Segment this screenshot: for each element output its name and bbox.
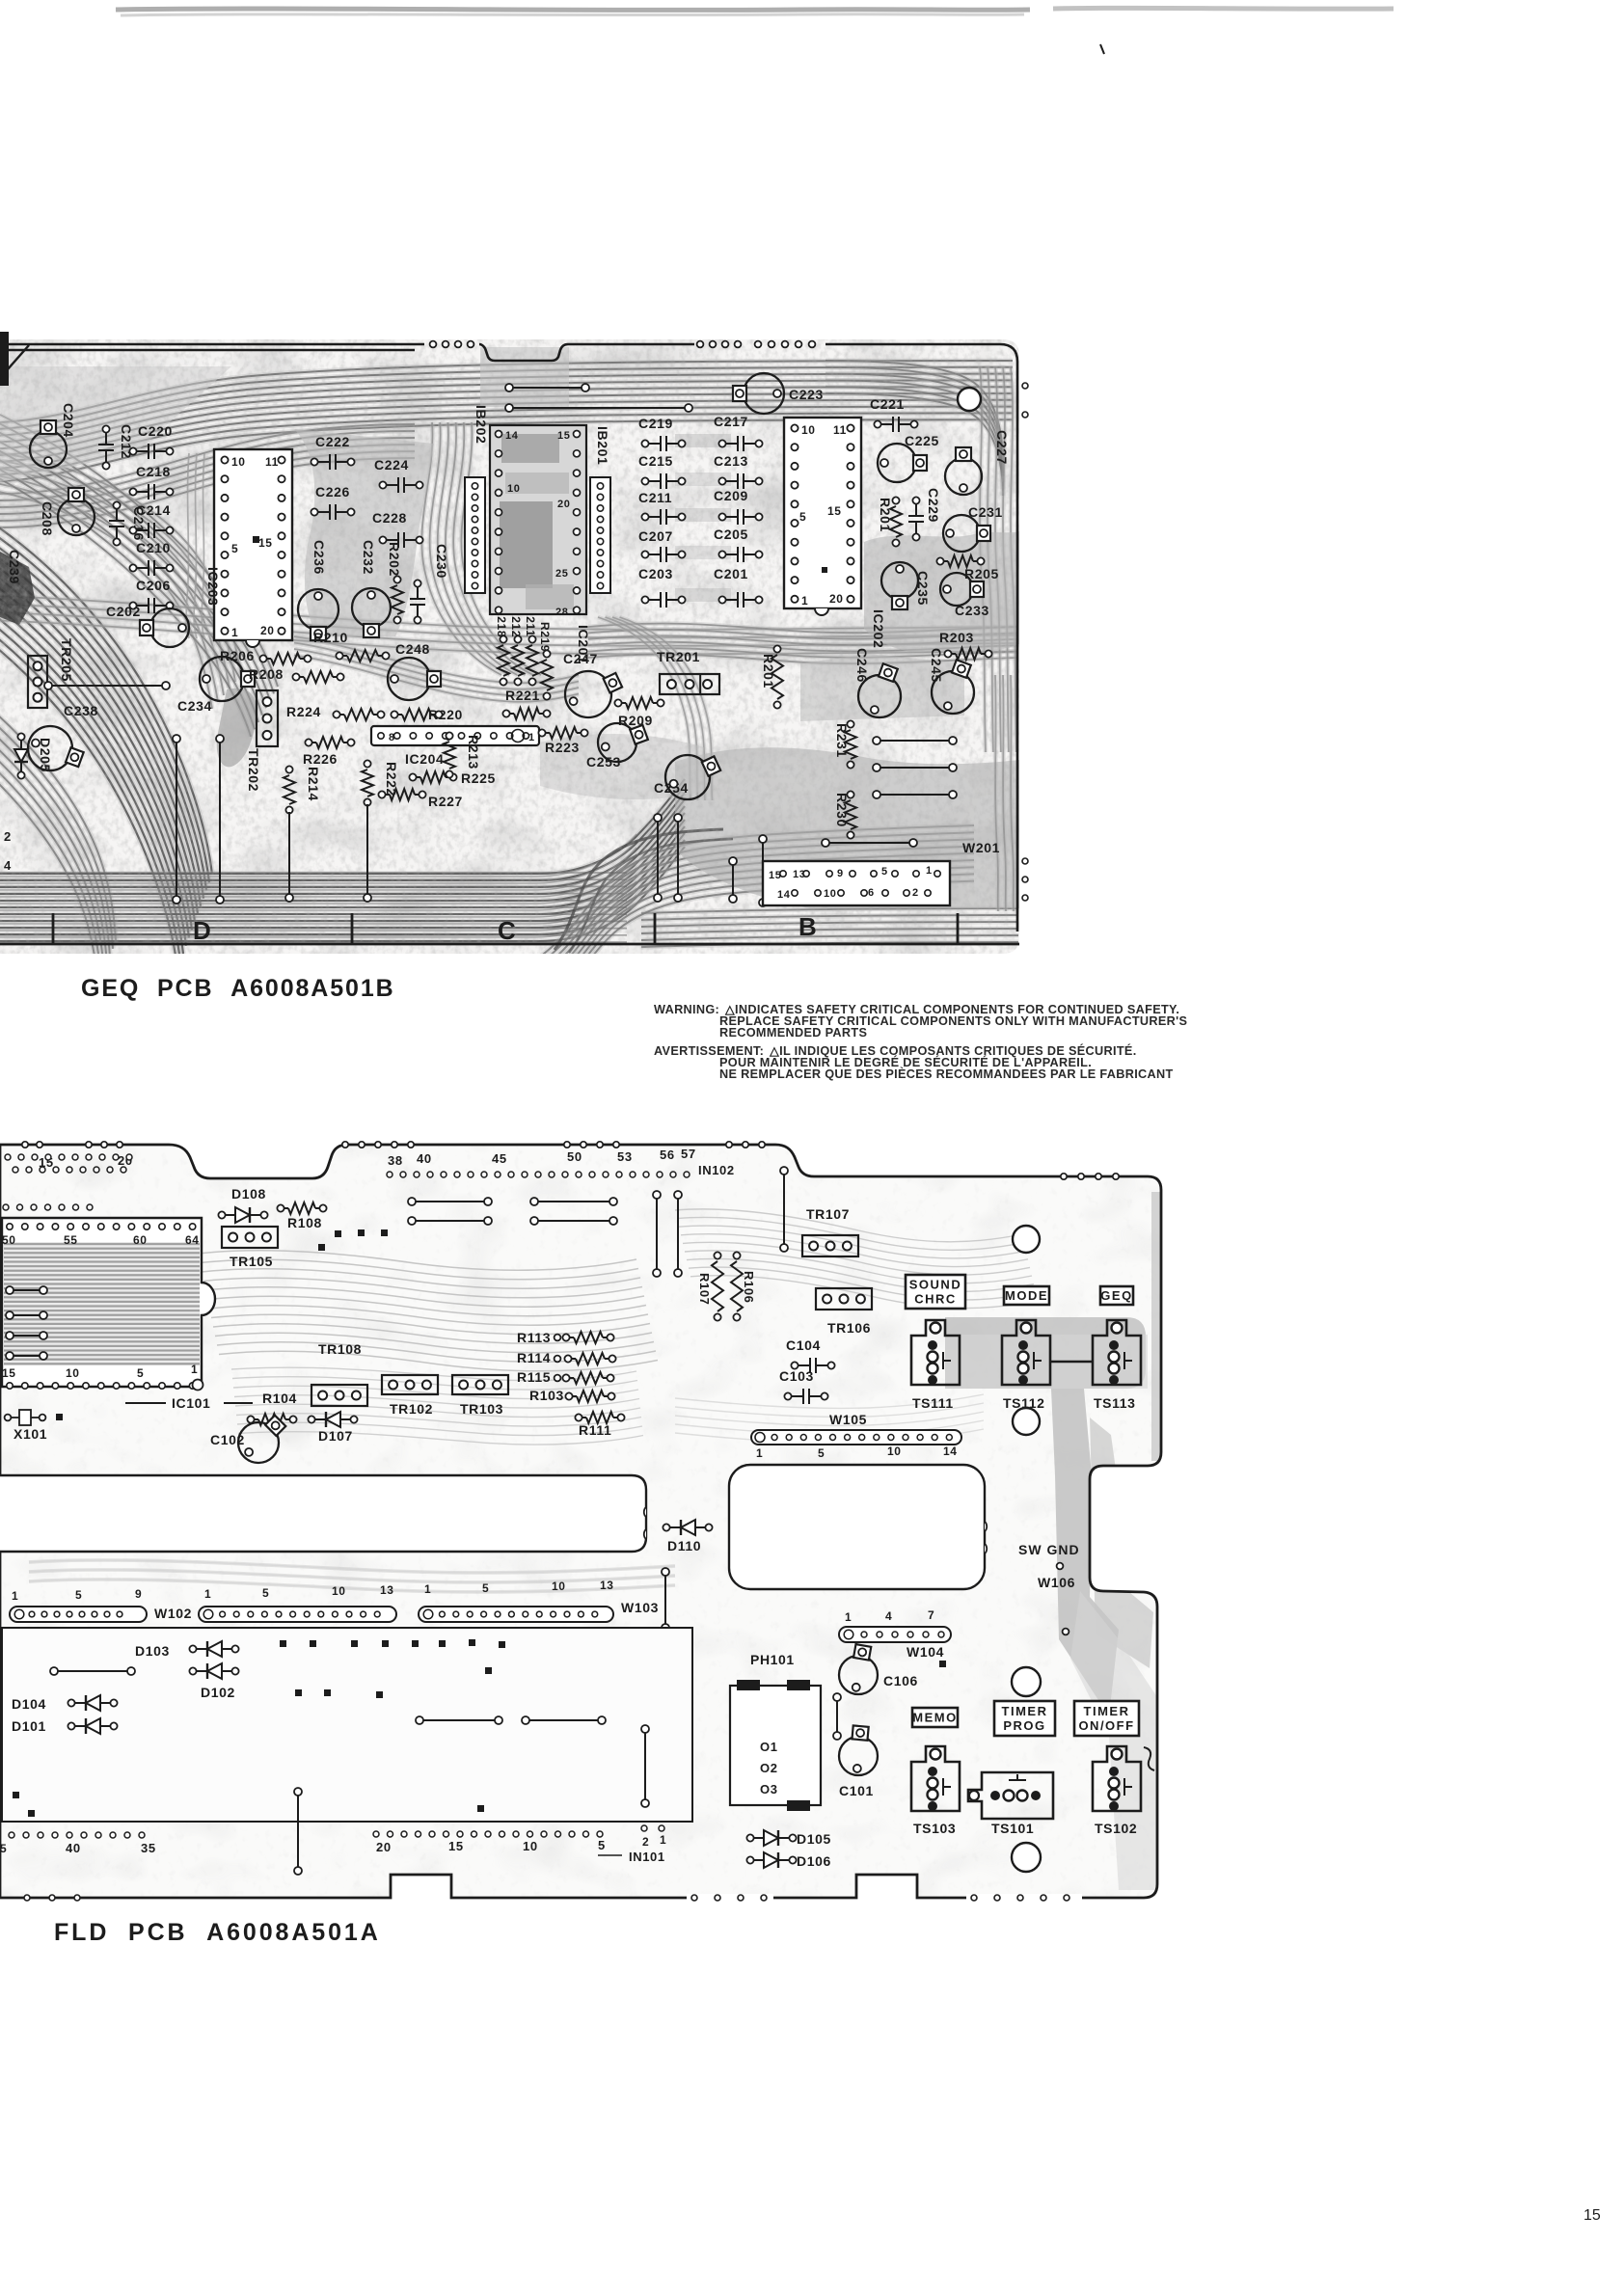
wire jumpers top middle 2 <box>408 1217 416 1225</box>
svg-text:C223: C223 <box>789 387 824 402</box>
resistor R205 <box>936 557 943 564</box>
trace bundle upper-left diagonal <box>0 453 241 675</box>
photo sensor PH101 <box>730 1686 821 1805</box>
capacitor C232 <box>352 588 391 627</box>
trace bundle top second <box>0 424 415 494</box>
connector strip 2 <box>199 1607 396 1622</box>
resistor R213 <box>446 732 452 739</box>
svg-text:RECOMMENDED PARTS: RECOMMENDED PARTS <box>719 1026 867 1040</box>
capacitor C234 <box>200 657 244 701</box>
keyboard jumper wires <box>416 1716 423 1724</box>
svg-text:W103: W103 <box>621 1600 659 1615</box>
svg-text:1: 1 <box>231 626 238 639</box>
svg-text:53: 53 <box>617 1149 633 1164</box>
connector strip 3 <box>419 1607 613 1622</box>
svg-text:10: 10 <box>507 483 520 495</box>
svg-text:C209: C209 <box>714 488 748 503</box>
transistor TR103 <box>452 1375 508 1394</box>
svg-text:5: 5 <box>231 542 238 555</box>
svg-text:R219: R219 <box>538 622 552 652</box>
GEQ PCB board region <box>0 339 1019 1013</box>
tact switch TS112 <box>1002 1320 1050 1385</box>
transistor TR106 <box>816 1288 872 1310</box>
svg-text:20: 20 <box>260 624 275 637</box>
svg-text:C203: C203 <box>638 566 673 581</box>
svg-text:GEQ: GEQ <box>1100 1288 1132 1303</box>
svg-text:C230: C230 <box>434 544 449 579</box>
svg-text:R224: R224 <box>286 704 321 719</box>
label box SOUND CHRC <box>906 1275 965 1309</box>
svg-text:C232: C232 <box>361 540 376 575</box>
resistor R231 <box>847 720 853 727</box>
svg-text:GEQ PCB A6008A501B: GEQ PCB A6008A501B <box>81 975 395 1002</box>
svg-text:O3: O3 <box>760 1782 778 1796</box>
keyboard vertical jumper bottom <box>294 1788 302 1796</box>
svg-text:60: 60 <box>133 1233 148 1247</box>
wire verticals near IN102 <box>653 1191 661 1199</box>
label box MEMO <box>912 1708 958 1727</box>
svg-text:R209: R209 <box>618 713 653 728</box>
capacitor C231 <box>943 515 980 552</box>
svg-text:C218: C218 <box>136 464 171 479</box>
svg-text:5: 5 <box>262 1586 269 1600</box>
svg-text:20: 20 <box>376 1840 392 1854</box>
svg-text:45: 45 <box>492 1151 507 1166</box>
svg-text:10: 10 <box>66 1366 80 1380</box>
svg-text:5: 5 <box>881 866 888 878</box>
dark meander near C254 <box>555 829 723 950</box>
svg-text:O1: O1 <box>760 1740 778 1754</box>
svg-text:R203: R203 <box>939 630 974 645</box>
SW GND pad <box>1057 1563 1064 1570</box>
svg-text:1: 1 <box>660 1833 666 1847</box>
wire below TR201 <box>729 857 737 865</box>
diode D105 <box>746 1834 753 1841</box>
svg-text:R115: R115 <box>517 1369 551 1385</box>
connector W102 <box>10 1607 147 1622</box>
top edge pads left <box>22 1142 28 1148</box>
grey smudge right edge outer <box>1151 1192 1161 1461</box>
svg-text:40: 40 <box>417 1151 432 1166</box>
FLD contour squiggles upper middle <box>198 1251 636 1271</box>
right edge pads outside board <box>1022 383 1028 389</box>
trace bundle right edge vertical <box>980 366 986 752</box>
svg-text:PROG: PROG <box>1003 1718 1045 1733</box>
svg-text:TR108: TR108 <box>318 1341 362 1357</box>
svg-text:1: 1 <box>845 1610 852 1624</box>
svg-text:6: 6 <box>868 887 875 899</box>
display window left <box>0 1475 646 1552</box>
trace bundle top right corner turn <box>826 361 1003 463</box>
svg-text:R213: R213 <box>466 735 481 770</box>
svg-text:W102: W102 <box>154 1606 192 1621</box>
svg-text:D103: D103 <box>135 1643 170 1659</box>
svg-text:TS113: TS113 <box>1094 1395 1135 1411</box>
diode D102 <box>189 1667 196 1674</box>
svg-text:2: 2 <box>4 829 12 844</box>
svg-text:IN102: IN102 <box>698 1163 735 1177</box>
IC101 interior stripes <box>4 1242 200 1365</box>
svg-text:2: 2 <box>642 1835 649 1849</box>
svg-text:15: 15 <box>448 1839 464 1853</box>
svg-text:C222: C222 <box>315 434 350 449</box>
resistor R210 <box>336 652 342 659</box>
trace bundle top horizontal <box>0 361 1013 422</box>
grey patch center-left of IC203 <box>294 429 434 636</box>
svg-text:D108: D108 <box>231 1186 266 1202</box>
svg-text:R104: R104 <box>262 1391 297 1406</box>
svg-text:R106: R106 <box>742 1271 756 1303</box>
keyboard matrix rectangle <box>2 1628 692 1822</box>
grey patch top notch <box>480 347 569 407</box>
left edge pads column <box>6 1286 14 1294</box>
svg-text:13: 13 <box>793 869 805 880</box>
tact switch TS111 <box>911 1320 960 1385</box>
IC202 <box>784 418 861 608</box>
svg-text:R107: R107 <box>697 1273 712 1305</box>
svg-text:R208: R208 <box>249 666 284 682</box>
FLD scan noise texture <box>0 1143 1163 1900</box>
diode D110 <box>663 1524 669 1530</box>
capacitor C223 <box>744 373 784 414</box>
wire TS112 to TS113 <box>1051 1361 1092 1364</box>
svg-text:55: 55 <box>64 1233 78 1247</box>
svg-text:IB201: IB201 <box>595 426 610 465</box>
svg-text:C227: C227 <box>994 430 1010 465</box>
svg-text:D106: D106 <box>797 1853 831 1869</box>
svg-text:R114: R114 <box>517 1350 551 1365</box>
svg-text:TS102: TS102 <box>1095 1821 1137 1836</box>
trace bundle bottom far <box>641 908 1018 913</box>
trace bundle bottom right contour <box>540 825 974 957</box>
GEQ board outline <box>0 344 1017 932</box>
svg-text:11: 11 <box>833 423 847 437</box>
wire jumper below TR201 <box>759 835 767 843</box>
top edge pads right <box>1061 1174 1067 1179</box>
svg-text:W201: W201 <box>962 840 1000 855</box>
svg-text:R225: R225 <box>461 770 496 786</box>
apostrophe scan mark <box>1100 44 1104 54</box>
connector W201 <box>763 861 950 905</box>
diode D107 <box>308 1416 314 1422</box>
svg-text:C214: C214 <box>136 502 171 518</box>
svg-text:TR107: TR107 <box>806 1206 850 1222</box>
svg-text:R103: R103 <box>529 1388 564 1403</box>
svg-text:R230: R230 <box>834 793 850 827</box>
svg-text:5: 5 <box>0 1842 7 1855</box>
svg-text:SOUND: SOUND <box>909 1278 961 1292</box>
svg-text:C225: C225 <box>905 433 939 448</box>
svg-text:8: 8 <box>389 732 395 743</box>
svg-text:TIMER: TIMER <box>1002 1704 1048 1718</box>
svg-text:20: 20 <box>557 499 570 510</box>
svg-text:X101: X101 <box>14 1426 47 1442</box>
svg-text:NE REMPLACER QUE DES PIÈCES RE: NE REMPLACER QUE DES PIÈCES RECOMMANDEES… <box>719 1067 1174 1081</box>
transistor TR201 <box>660 674 719 694</box>
transistor TR107 <box>802 1235 858 1256</box>
connector W105 <box>751 1430 961 1445</box>
label box MODE <box>1004 1286 1049 1305</box>
svg-text:TR106: TR106 <box>827 1320 871 1336</box>
svg-text:C101: C101 <box>839 1783 874 1798</box>
resistor R111 <box>575 1414 582 1420</box>
mounting hole below TS112 <box>1013 1408 1040 1435</box>
svg-text:ON/OFF: ON/OFF <box>1078 1718 1134 1733</box>
wire jumpers top middle 1 <box>408 1198 416 1205</box>
IC101 big IC <box>2 1218 215 1387</box>
svg-text:25: 25 <box>555 568 568 580</box>
svg-text:C231: C231 <box>968 504 1003 520</box>
wire left of D102 <box>50 1667 58 1675</box>
mounting hole top right <box>958 388 981 411</box>
svg-text:W105: W105 <box>829 1412 867 1427</box>
svg-text:R223: R223 <box>545 740 580 755</box>
svg-text:C224: C224 <box>374 457 409 473</box>
warning text english <box>654 1003 1187 1040</box>
capacitor C227 <box>945 458 982 495</box>
capacitor C245 <box>932 671 974 714</box>
resistor R227 <box>378 791 385 797</box>
svg-text:C103: C103 <box>779 1368 814 1384</box>
svg-text:C226: C226 <box>315 484 350 500</box>
svg-text:TS103: TS103 <box>913 1821 956 1836</box>
svg-text:IC201: IC201 <box>576 625 591 663</box>
connector IB201 <box>590 477 610 593</box>
trace bundle left fan inner <box>0 714 116 940</box>
svg-text:R108: R108 <box>287 1215 322 1230</box>
svg-text:MEMO: MEMO <box>912 1711 957 1725</box>
resistor R202 <box>393 576 400 582</box>
capacitor C253 <box>598 723 636 762</box>
transistor TR102 <box>382 1375 438 1394</box>
svg-text:MODE: MODE <box>1005 1288 1048 1303</box>
trace bundle upper-left extra diagonal <box>0 415 278 687</box>
svg-text:TS101: TS101 <box>991 1821 1034 1836</box>
svg-text:C202: C202 <box>106 604 141 619</box>
svg-text:5: 5 <box>137 1366 144 1380</box>
svg-text:CHRC: CHRC <box>914 1292 957 1307</box>
svg-text:15: 15 <box>2 1366 16 1380</box>
svg-text:9: 9 <box>135 1587 142 1601</box>
svg-text:C229: C229 <box>926 488 941 523</box>
svg-text:38: 38 <box>388 1153 403 1168</box>
svg-text:C239: C239 <box>7 550 22 584</box>
svg-text:14: 14 <box>777 889 791 901</box>
tact switch TS101 <box>968 1772 1053 1819</box>
svg-text:5: 5 <box>482 1581 489 1595</box>
trace bundle right of W201 <box>995 675 998 911</box>
svg-text:TR105: TR105 <box>230 1254 273 1269</box>
capacitor C233 <box>940 573 973 606</box>
wire between C106 C101 <box>833 1693 841 1701</box>
trace bundle center vertical snake <box>421 422 501 675</box>
svg-text:R202: R202 <box>387 542 402 577</box>
scan noise texture <box>0 339 1019 954</box>
svg-text:IC101: IC101 <box>172 1395 210 1411</box>
left edge black mark <box>0 332 9 386</box>
svg-text:C219: C219 <box>638 416 673 431</box>
trace bundle center <box>294 636 579 683</box>
tact switch TS103 <box>911 1746 960 1811</box>
svg-text:D104: D104 <box>12 1696 46 1712</box>
resistor R209 <box>614 699 621 706</box>
grey column below TS112 <box>1051 1389 1119 1716</box>
resistor R230 <box>847 791 853 797</box>
svg-text:C207: C207 <box>638 528 673 544</box>
trace bundle left fan <box>0 526 212 875</box>
svg-text:5: 5 <box>75 1588 82 1602</box>
capacitor C101 <box>839 1737 878 1775</box>
IC101 top pin row <box>7 1224 13 1229</box>
capacitor C212 <box>102 425 109 432</box>
svg-text:W104: W104 <box>907 1644 944 1660</box>
smudge rows between caps <box>675 434 731 447</box>
svg-text:1: 1 <box>528 732 535 743</box>
svg-text:IC202: IC202 <box>871 609 886 648</box>
svg-text:PH101: PH101 <box>750 1652 795 1667</box>
grey streak along right edge step <box>1090 1418 1153 1668</box>
svg-text:R113: R113 <box>517 1330 551 1345</box>
grey blob right of C234 <box>217 689 257 768</box>
svg-text:15: 15 <box>258 536 273 550</box>
resistor R108 <box>277 1204 284 1211</box>
capacitor C235 <box>881 562 918 599</box>
resistor cluster R218 R212 R211 R219 <box>500 635 506 642</box>
svg-text:R226: R226 <box>303 751 338 767</box>
pads row upper left <box>3 1204 9 1210</box>
svg-text:C236: C236 <box>311 540 327 575</box>
transistor TR105 <box>222 1227 278 1248</box>
IC101 bottom pin row <box>7 1383 13 1389</box>
svg-text:15: 15 <box>1583 2207 1601 2224</box>
svg-text:IC203: IC203 <box>205 567 221 606</box>
tact switch TS113 <box>1093 1320 1141 1385</box>
top left corner diagonal edge <box>0 345 29 378</box>
squiggle right of TS102 <box>1144 1747 1154 1770</box>
left edge dark streaks <box>0 872 627 874</box>
diode D106 <box>746 1856 753 1863</box>
trace bundle bottom bus second layer <box>0 834 636 877</box>
svg-text:10: 10 <box>887 1445 902 1458</box>
grey band behind tact switches <box>945 1317 1146 1389</box>
mounting hole above TS101 <box>1012 1667 1041 1696</box>
wire pair below C253 <box>654 814 662 822</box>
svg-text:SW GND: SW GND <box>1018 1542 1080 1557</box>
svg-text:1: 1 <box>424 1582 431 1596</box>
display window main <box>729 1465 985 1589</box>
diode D205 <box>17 733 24 740</box>
svg-text:20: 20 <box>829 592 844 606</box>
svg-text:C238: C238 <box>64 703 98 718</box>
IC203 <box>214 449 292 640</box>
svg-text:R201: R201 <box>878 498 893 532</box>
svg-text:56: 56 <box>660 1148 675 1162</box>
connector W104 <box>839 1627 951 1642</box>
FLD blotch clouds <box>0 1143 1163 1900</box>
svg-text:R206: R206 <box>220 648 255 663</box>
trace bundle mid band full width <box>0 596 1018 630</box>
svg-text:C208: C208 <box>40 501 55 536</box>
svg-text:1: 1 <box>926 865 933 877</box>
scan smudge top edge <box>116 9 1030 10</box>
svg-text:7: 7 <box>928 1608 934 1622</box>
svg-text:10: 10 <box>824 888 836 900</box>
keyboard matrix black squares <box>280 1640 286 1647</box>
svg-text:W106: W106 <box>1038 1575 1075 1590</box>
svg-text:2: 2 <box>912 887 919 899</box>
trace bundle left of IC203 vertical <box>186 453 189 638</box>
capacitor C202 <box>150 608 189 647</box>
top edge pads <box>430 341 437 348</box>
FLD faint squiggles below switch band <box>675 1394 984 1408</box>
mounting hole below TS101 <box>1012 1843 1041 1872</box>
svg-text:C211: C211 <box>638 490 672 505</box>
grey patch bottom middle <box>675 747 1019 908</box>
svg-text:10: 10 <box>801 423 816 437</box>
svg-text:FLD PCB A6008A501A: FLD PCB A6008A501A <box>54 1919 381 1946</box>
svg-text:IN101: IN101 <box>629 1850 665 1864</box>
svg-text:IC204: IC204 <box>405 751 444 767</box>
svg-text:C106: C106 <box>883 1673 918 1688</box>
dark blob left edge <box>0 552 35 625</box>
svg-text:D105: D105 <box>797 1831 831 1847</box>
svg-text:TIMER: TIMER <box>1084 1704 1130 1718</box>
svg-text:C228: C228 <box>372 510 407 526</box>
svg-text:TR202: TR202 <box>246 748 261 792</box>
svg-text:13: 13 <box>380 1583 394 1597</box>
svg-text:B: B <box>798 912 817 941</box>
svg-text:D102: D102 <box>201 1685 235 1700</box>
svg-text:50: 50 <box>2 1233 16 1247</box>
trace bundle bottom bus <box>0 779 685 874</box>
capacitor C246 <box>858 675 901 717</box>
svg-text:TR205: TR205 <box>59 638 74 682</box>
trace bundle mid right <box>588 624 1018 634</box>
svg-text:D110: D110 <box>667 1538 701 1553</box>
FLD board outline <box>0 1145 1161 1898</box>
ruler line with section ticks <box>0 913 1019 944</box>
wire jumper top center 2 <box>505 404 513 412</box>
mounting hole above TS112 <box>1013 1226 1040 1253</box>
IC204 strip <box>371 726 539 745</box>
svg-text:TR201: TR201 <box>657 649 700 664</box>
svg-text:1: 1 <box>191 1363 198 1376</box>
svg-text:5: 5 <box>818 1446 825 1460</box>
svg-text:57: 57 <box>681 1147 696 1161</box>
capacitor C248 <box>388 658 430 700</box>
svg-text:C206: C206 <box>136 578 171 593</box>
svg-text:1: 1 <box>801 594 808 608</box>
svg-text:C210: C210 <box>136 540 171 555</box>
trace bundle below IC202 <box>598 617 690 800</box>
svg-text:TR102: TR102 <box>390 1401 433 1417</box>
warning text french <box>654 1043 1174 1081</box>
grey patch right of IC202 <box>864 531 1019 652</box>
blotch clouds <box>0 339 1019 954</box>
resistor R106 <box>733 1252 740 1258</box>
svg-text:C220: C220 <box>138 423 173 439</box>
wire right of D110 <box>662 1568 669 1576</box>
svg-text:R210: R210 <box>313 630 348 645</box>
label box TIMER ON/OFF <box>1074 1701 1139 1736</box>
svg-text:O2: O2 <box>760 1761 778 1775</box>
svg-text:C201: C201 <box>714 566 748 581</box>
capacitor C236 <box>298 589 338 630</box>
wire jumpers right side <box>873 737 880 744</box>
svg-text:1: 1 <box>204 1587 211 1601</box>
svg-text:D101: D101 <box>12 1718 46 1734</box>
svg-text:15: 15 <box>769 870 781 881</box>
